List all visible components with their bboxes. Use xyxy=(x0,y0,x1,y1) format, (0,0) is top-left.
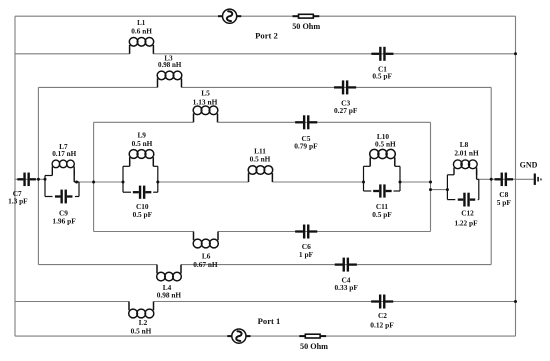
wire: L7 block left edge xyxy=(44,176,46,197)
inductor L1 xyxy=(129,38,153,54)
wire: L8 block right edge xyxy=(478,179,480,199)
svg-text:0.17 nH: 0.17 nH xyxy=(52,150,76,158)
capacitor C6 xyxy=(295,225,317,239)
junction dot L10 entry xyxy=(362,181,365,184)
svg-text:5 pF: 5 pF xyxy=(497,198,512,207)
ground GND xyxy=(534,174,542,185)
wire: L7 block top-right xyxy=(74,181,79,183)
svg-text:0.27 pF: 0.27 pF xyxy=(334,106,358,115)
wire: L2/C2 line xyxy=(15,301,516,303)
wire: L9 block top-right xyxy=(153,165,158,167)
label 1.22 pF xyxy=(454,218,478,227)
label 1.96 pF xyxy=(52,217,76,226)
label 0.98 nH (L4) xyxy=(157,291,182,300)
capacitor C3 xyxy=(334,80,356,94)
label C10 xyxy=(136,202,149,211)
svg-text:0.67 nH: 0.67 nH xyxy=(193,260,218,269)
label C9 xyxy=(59,209,68,218)
wire: middle row main segment b xyxy=(158,181,249,183)
label L3 xyxy=(164,54,173,62)
inductor L8 xyxy=(453,160,477,175)
svg-text:0.98 nH: 0.98 nH xyxy=(158,61,182,69)
label 0.67 nH xyxy=(193,260,218,269)
label 0.5 nH (L9) xyxy=(132,139,153,148)
wire: L7 block top-left xyxy=(45,175,52,177)
label C8 xyxy=(499,190,508,199)
svg-text:0.79 pF: 0.79 pF xyxy=(294,141,318,150)
junction dot vertical3R lower xyxy=(429,188,432,191)
junction dot L10 exit xyxy=(399,181,402,184)
inductor L5 xyxy=(193,106,218,122)
label C7 xyxy=(13,189,22,198)
svg-text:1.3 pF: 1.3 pF xyxy=(8,197,28,206)
wire: C12 bottom left lead xyxy=(447,199,455,201)
label C3 xyxy=(341,99,350,108)
label 0.5 pF (C10) xyxy=(133,210,153,219)
capacitor C10 xyxy=(133,186,152,199)
label 1 pF xyxy=(299,250,314,259)
label L9 xyxy=(137,130,146,139)
label L8 xyxy=(460,140,469,149)
wire: L1/C1 line xyxy=(15,53,516,55)
label C12 xyxy=(461,208,474,217)
label 0.5 nH (L11) xyxy=(250,155,271,164)
wire: L9 block left edge xyxy=(122,166,124,192)
label C2 xyxy=(378,311,387,320)
wire: middle row left stub xyxy=(15,178,45,180)
inductor L7 xyxy=(52,160,74,175)
label L5 xyxy=(201,89,210,98)
wire: L4/C4 line xyxy=(38,264,491,266)
label 0.5 pF (C11) xyxy=(372,210,392,219)
wire: L7 riser-right extension xyxy=(73,170,75,182)
label C6 xyxy=(302,242,311,251)
inductor L6 xyxy=(193,232,218,248)
svg-text:0.5 nH: 0.5 nH xyxy=(375,139,396,148)
wire: L8 block top-left xyxy=(447,174,454,176)
inductor L2 xyxy=(129,302,154,318)
wire: L6/C6 line xyxy=(94,231,431,233)
wire: L9 block top-left xyxy=(123,165,130,167)
label 0.33 pF xyxy=(334,283,358,292)
junction dot wire/left vertical 3 xyxy=(92,181,95,184)
inductor L11 xyxy=(248,166,273,182)
wire: L8 block top-right xyxy=(477,178,479,180)
wire: middle row jog segment xyxy=(431,189,448,191)
label L7 xyxy=(59,142,68,151)
svg-text:1.22 pF: 1.22 pF xyxy=(454,218,478,227)
junction dot L9 entry xyxy=(122,181,125,184)
label 0.12 pF xyxy=(370,320,394,329)
wire: L10 block left edge xyxy=(363,166,365,191)
wire: C11 bottom left lead xyxy=(364,190,372,192)
label 50 Ohm (bottom) xyxy=(300,342,328,351)
label 5 pF xyxy=(497,198,512,207)
wire: L8 block left edge xyxy=(446,175,448,200)
svg-text:0.5 nH: 0.5 nH xyxy=(250,155,271,164)
label Port 2 xyxy=(255,31,278,41)
wire: L10 block right edge xyxy=(399,166,401,191)
resistor: 50 Ohm (bottom) xyxy=(299,334,326,338)
svg-text:0.5 pF: 0.5 pF xyxy=(133,210,153,219)
label L1 xyxy=(137,19,146,27)
capacitor C2 xyxy=(371,295,393,309)
source: Port 2 AC source xyxy=(218,9,241,23)
capacitor C4 xyxy=(335,258,357,272)
label GND xyxy=(520,161,538,170)
svg-text:50 Ohm: 50 Ohm xyxy=(300,342,328,351)
junction dot C1 line / right vertical xyxy=(514,52,517,55)
svg-text:L5: L5 xyxy=(201,89,210,98)
label 50 Ohm (top) xyxy=(292,22,320,31)
svg-text:GND: GND xyxy=(520,161,538,170)
junction dot L7 entry xyxy=(44,178,47,181)
svg-text:0.5 pF: 0.5 pF xyxy=(372,72,392,81)
wire: outer left vertical xyxy=(14,16,16,336)
resistor: 50 Ohm (top) xyxy=(293,14,320,18)
label 0.5 pF xyxy=(372,72,392,81)
wire: C9 bottom right lead xyxy=(75,196,79,198)
capacitor C8 xyxy=(495,173,514,187)
svg-text:2.01 nH: 2.01 nH xyxy=(454,148,479,157)
wire: L9 block right edge xyxy=(157,166,159,192)
wire: Port 2 top line xyxy=(15,15,516,17)
wire: middle row right stub to ground xyxy=(479,178,534,180)
capacitor C1 xyxy=(371,47,393,61)
label 0.27 pF xyxy=(334,106,358,115)
label L11 xyxy=(254,146,266,155)
junction dot vertical3R upper xyxy=(429,181,432,184)
wire: middle row main segment c xyxy=(272,181,363,183)
label 0.17 nH xyxy=(52,150,76,158)
svg-text:0.98 nH: 0.98 nH xyxy=(157,291,182,300)
svg-text:0.12 pF: 0.12 pF xyxy=(370,320,394,329)
svg-text:0.5 pF: 0.5 pF xyxy=(372,210,392,219)
wire: C10 bottom right lead xyxy=(153,191,158,193)
capacitor C12 xyxy=(458,193,476,207)
label 0.6 nH xyxy=(131,27,152,36)
label L2 xyxy=(139,318,148,327)
wire: C9 bottom left lead xyxy=(45,196,53,198)
label L4 xyxy=(163,283,172,292)
capacitor C9 xyxy=(55,190,72,204)
label 0.5 nH (L2) xyxy=(131,326,152,335)
wire: L8 riser-right extension xyxy=(476,170,478,179)
label L10 xyxy=(377,132,390,141)
label L6 xyxy=(202,252,211,261)
wire: L7 block right edge xyxy=(78,182,80,197)
inductor L3 xyxy=(157,71,182,87)
svg-text:1.13 nH: 1.13 nH xyxy=(193,98,218,107)
inductor L10 xyxy=(370,149,396,166)
wire: middle row main segment d xyxy=(400,181,431,183)
wire: L3/C3 line xyxy=(38,86,491,88)
capacitor C7 xyxy=(17,173,35,187)
wire: outer right vertical xyxy=(515,16,517,336)
label Port 1 xyxy=(258,316,281,326)
junction dot L9 exit xyxy=(156,181,159,184)
svg-text:C12: C12 xyxy=(461,208,474,217)
svg-text:0.5 nH: 0.5 nH xyxy=(132,139,153,148)
label 0.5 nH (L10) xyxy=(375,139,396,148)
label 1.13 nH xyxy=(193,98,218,107)
svg-text:0.6 nH: 0.6 nH xyxy=(131,27,152,36)
svg-text:0.5 nH: 0.5 nH xyxy=(131,326,152,335)
junction dot wire/right vertical 2 xyxy=(490,178,493,181)
junction dot L7 exit xyxy=(75,181,78,184)
svg-text:0.33 pF: 0.33 pF xyxy=(334,283,358,292)
label 2.01 nH xyxy=(454,148,479,157)
source: Port 1 AC source xyxy=(227,329,250,343)
wire: middle row main segment a xyxy=(79,181,123,183)
wire: second left vertical xyxy=(37,87,39,264)
junction dot C2 line / right vertical xyxy=(514,300,517,303)
wire: third right vertical xyxy=(430,122,432,231)
wire: C12 bottom right lead xyxy=(478,199,479,201)
label C11 xyxy=(376,202,389,211)
capacitor C5 xyxy=(295,115,317,129)
inductor L9 xyxy=(129,150,154,167)
junction dot wire/left vertical 2 xyxy=(37,178,40,181)
junction dot L8 entry xyxy=(446,188,449,191)
svg-text:1 pF: 1 pF xyxy=(299,250,314,259)
label 0.79 pF xyxy=(294,141,318,150)
wire: second right vertical xyxy=(490,87,492,264)
svg-text:50 Ohm: 50 Ohm xyxy=(292,22,320,31)
svg-text:C2: C2 xyxy=(378,311,387,320)
wire: Port 1 bottom line xyxy=(15,335,516,337)
label 1.3 pF xyxy=(8,197,28,206)
label 0.98 nH xyxy=(158,61,182,69)
capacitor C11 xyxy=(373,184,392,197)
inductor L4 xyxy=(157,265,182,281)
wire: L10 block top-left xyxy=(364,165,371,167)
svg-text:Port 2: Port 2 xyxy=(255,31,278,41)
svg-text:Port 1: Port 1 xyxy=(258,316,281,326)
wire: C11 bottom right lead xyxy=(394,190,401,192)
wire: L5/C5 line xyxy=(94,121,431,123)
label C4 xyxy=(341,275,350,284)
label C1 xyxy=(378,64,387,73)
wire: third left vertical xyxy=(93,122,95,231)
label C5 xyxy=(301,134,310,143)
wire: L10 block top-right xyxy=(395,165,400,167)
svg-text:1.96 pF: 1.96 pF xyxy=(52,217,76,226)
wire: C10 bottom left lead xyxy=(123,191,131,193)
